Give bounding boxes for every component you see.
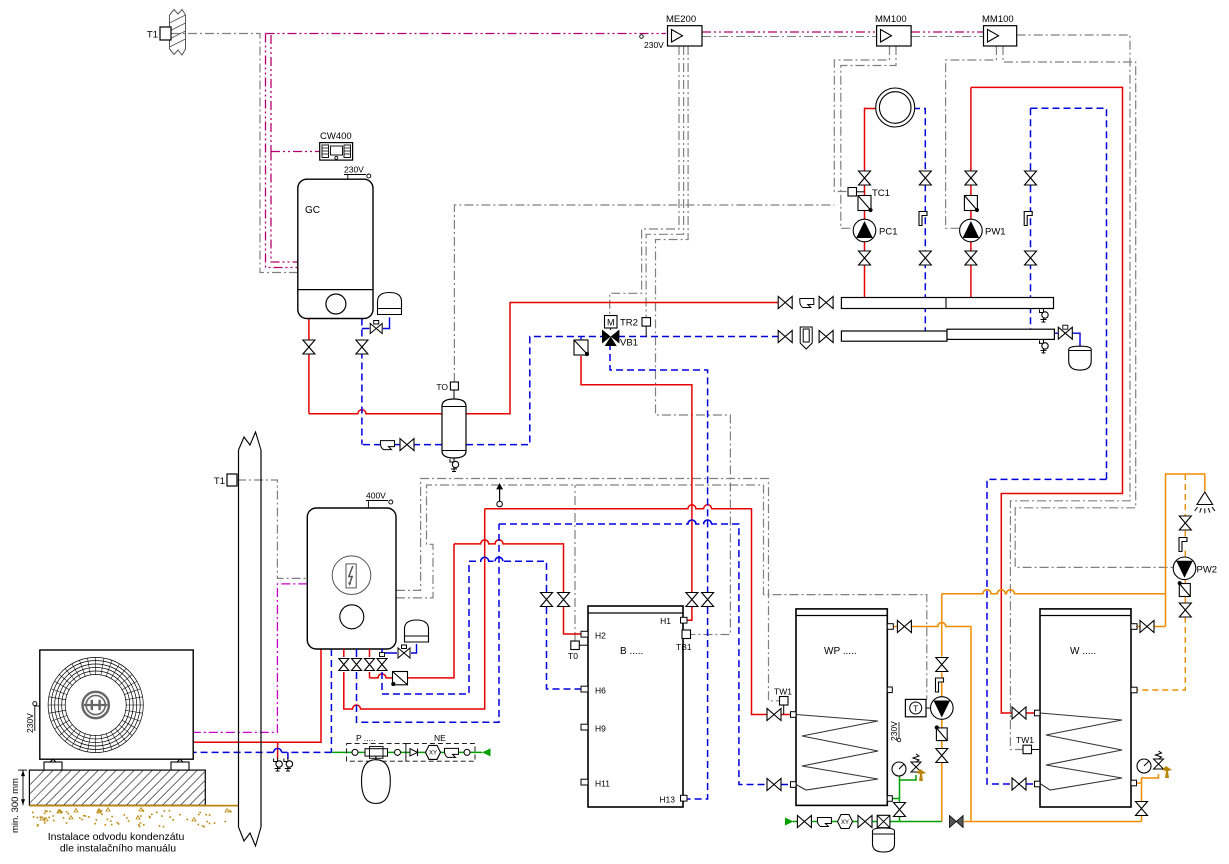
pipe fresh water line green <box>331 751 482 753</box>
valve circuit 1 return top <box>919 171 931 185</box>
svg-text:230V: 230V <box>344 165 364 175</box>
three-way valve VB1 <box>602 330 619 347</box>
shut-off valve dark <box>950 816 964 828</box>
bump blue over red H1 line <box>688 520 712 524</box>
pump DHW circulation WP <box>931 697 954 720</box>
wire MM100-2 to pump PW1 <box>946 46 997 228</box>
stub H11 <box>581 779 588 785</box>
stub WP hot out <box>887 624 893 630</box>
svg-text:M: M <box>607 317 615 327</box>
valve circulation riser top <box>936 658 948 672</box>
lockshield circuit 1 <box>919 212 927 226</box>
svg-text:min. 300 mm: min. 300 mm <box>10 778 21 833</box>
check valve PW2 <box>1179 538 1187 552</box>
buffer tank B <box>588 606 683 807</box>
pipe tank W coil return blue <box>987 108 1107 784</box>
valve separator return <box>400 439 414 451</box>
siphon NE <box>445 748 459 757</box>
svg-text:TW1: TW1 <box>774 687 792 697</box>
valve supply header right <box>819 297 833 309</box>
pipe indoor unit to tank WP flow red <box>344 505 790 715</box>
valve W coil in <box>1012 707 1026 719</box>
valve W hot out <box>1140 621 1154 633</box>
valve WP cold <box>894 803 906 817</box>
module ME200 <box>668 26 703 46</box>
valve PW2 top <box>1179 516 1191 530</box>
valve return header left <box>778 331 792 343</box>
bump blue over drain stem at heat pump <box>274 748 282 752</box>
pipe circulation line to PW2 orange dashed <box>1137 474 1185 690</box>
fill valve indoor unit 4 <box>377 649 387 671</box>
pipe cold water main green <box>793 821 942 823</box>
sensor TW1 tank WP <box>780 697 789 715</box>
sensor TB1 <box>682 630 691 639</box>
pipe cold water to tanks orange <box>964 774 1158 822</box>
check valve GC return <box>381 441 395 450</box>
pipe DHW circulation riser orange <box>942 590 1166 822</box>
stub W hot out <box>1131 624 1137 630</box>
stub W coil out <box>1035 781 1041 787</box>
svg-text:W .....: W ..... <box>1070 646 1096 657</box>
svg-text:VB1: VB1 <box>620 338 638 349</box>
valve circuit 1 return bottom <box>919 251 931 265</box>
svg-text:H13: H13 <box>659 795 675 805</box>
gauge tank WP <box>892 762 906 776</box>
check valve circulation <box>936 678 944 692</box>
wire bus segment MM100-MM100 <box>911 31 983 33</box>
svg-text:PW1: PW1 <box>985 227 1006 238</box>
stub W cold <box>1131 780 1137 786</box>
wire ME200 to TB1 sensor <box>656 46 731 635</box>
wire MM100-2 to pump PW2 <box>1003 46 1174 567</box>
svg-text:CW400: CW400 <box>320 131 352 142</box>
wire ME200 to M actuator VB1 <box>610 46 679 316</box>
pipe tank W loading flow red <box>971 87 1123 713</box>
valve buffer H6 <box>541 593 553 607</box>
tank W <box>1040 609 1131 807</box>
hydraulic separator TO <box>442 390 466 458</box>
wire indoor unit to thermostat box (inner loop) <box>396 485 927 699</box>
check valve below return line <box>574 337 589 357</box>
bump blue over unit risers <box>481 557 503 561</box>
discharge funnel W <box>1162 766 1172 778</box>
expansion vessel at GC <box>378 293 402 315</box>
stub WP coil in <box>791 712 797 718</box>
svg-text:TO: TO <box>436 382 448 392</box>
air vent on flow line <box>496 483 503 507</box>
safety valve tank W <box>1154 751 1164 769</box>
valve green main <box>797 816 811 828</box>
wire CW400 drop to GC (crimson) <box>271 35 320 262</box>
svg-text:TC1: TC1 <box>872 188 890 199</box>
label 230V at ME200 <box>640 35 664 50</box>
valve buffer H2 <box>558 593 570 607</box>
supply header bar <box>841 298 1053 309</box>
svg-text:MM100: MM100 <box>982 14 1014 25</box>
valve GC return <box>356 340 368 354</box>
pipe header expansion vessel blue <box>1054 333 1080 346</box>
wire T1 wall sensor to indoor unit <box>237 480 307 578</box>
drain return header <box>1040 339 1049 353</box>
label 230V at heat pump <box>25 702 40 733</box>
svg-text:PC1: PC1 <box>879 227 897 238</box>
svg-text:T0: T0 <box>568 651 578 661</box>
group NE dashed box <box>406 744 475 762</box>
dimension min 300 mm <box>10 770 27 833</box>
sensor TR2 <box>642 318 651 337</box>
meter XY NE <box>426 745 441 759</box>
valve indoor unit 3 <box>365 649 375 671</box>
safety valve tank WP <box>911 754 921 772</box>
pipe heating circuit 1 return blue <box>913 109 925 332</box>
cap valve indoor vessel <box>398 645 410 658</box>
valve WP hot out <box>897 621 911 633</box>
stub H9 <box>581 724 588 730</box>
stub H2 <box>581 631 588 637</box>
pipe tank WP cold connection green <box>892 775 916 822</box>
thermostat box 230V <box>905 699 930 716</box>
sample point 1 <box>352 749 358 755</box>
pipe heating circuit 2 return blue <box>1030 108 1032 329</box>
expansion vessel potable P <box>362 756 391 803</box>
heat pump outdoor unit <box>40 650 193 759</box>
label 230V at thermostat <box>889 721 901 742</box>
valve return header right <box>819 331 833 343</box>
stub WP coil out <box>791 782 797 788</box>
sensor TC1 <box>848 188 865 197</box>
expansion vessel at indoor unit <box>405 620 429 642</box>
valve circuit 2 flow bottom <box>965 251 977 265</box>
svg-text:T1: T1 <box>214 476 225 487</box>
pipe GC expansion vessel blue <box>362 317 390 328</box>
svg-text:TW1: TW1 <box>1016 735 1034 745</box>
svg-text:dle instalačního manuálu: dle instalačního manuálu <box>60 843 176 855</box>
pipe heating circuit 2 flow red <box>970 87 972 297</box>
cap valve GC vessel <box>370 321 382 334</box>
expansion vessel potable <box>873 828 895 852</box>
arrow fresh water green <box>482 748 491 756</box>
heat pump feet <box>44 759 189 770</box>
drain at heat pump line 2 <box>284 758 293 772</box>
strainer return header <box>800 327 812 349</box>
svg-text:H2: H2 <box>595 631 606 641</box>
valve WP coil out <box>767 779 781 791</box>
valve circulation riser bottom <box>936 749 948 763</box>
bump orange over circulation riser <box>938 623 946 627</box>
pipe heat pump flow red <box>193 649 321 759</box>
pipe indoor unit to buffer H6 blue <box>382 557 581 694</box>
gauge tank W <box>1137 759 1151 773</box>
sample point 3 <box>464 749 470 755</box>
filter PW2 <box>1178 581 1191 596</box>
wire bus segment ME200-MM100 <box>702 31 877 33</box>
svg-text:T: T <box>913 703 918 713</box>
wire MM100-1 to pump PC1 <box>841 46 896 228</box>
svg-text:H11: H11 <box>595 779 610 789</box>
pipe return header blue <box>618 336 778 338</box>
module MM100 second <box>984 26 1017 46</box>
drain separator <box>450 458 459 472</box>
wire gray bus parallel <box>702 36 984 38</box>
arrow cold water feed green <box>785 818 794 826</box>
svg-text:GC: GC <box>305 205 320 216</box>
svg-text:TB1: TB1 <box>676 642 692 652</box>
valve circuit 2 flow top <box>965 171 977 185</box>
pipe VB1 to buffer H13 blue <box>610 343 708 799</box>
svg-text:230V: 230V <box>25 713 35 733</box>
wall top with outdoor sensor T1 <box>160 10 186 56</box>
valve circuit 1 flow bottom <box>859 251 871 265</box>
wire MM100-1 to TC1 <box>834 46 889 192</box>
svg-text:Instalace odvodu kondenzátu: Instalace odvodu kondenzátu <box>48 831 185 843</box>
check valve green main <box>817 818 831 827</box>
lockshield circuit 2 <box>1024 212 1032 226</box>
sensor T1 on wall <box>227 474 237 486</box>
valve W coil out <box>1012 778 1026 790</box>
actuator M of VB1 <box>605 316 618 331</box>
wire MM100-2 to TW1 of tank W <box>1010 35 1130 750</box>
stub W circulation <box>1131 687 1137 693</box>
fill valve header end <box>1058 325 1072 339</box>
valve W cold <box>1136 802 1148 816</box>
pipe GC flow red <box>309 319 442 414</box>
magnetite filter indoor <box>391 672 407 687</box>
wire T1 outdoor sensor to bus corner <box>171 34 298 273</box>
wire TO sensor to MM100 area <box>454 205 834 382</box>
module MM100 first <box>877 26 912 46</box>
stub H1 <box>681 617 688 623</box>
heating circuit symbol circle <box>876 88 915 127</box>
wire T0 buffer sensor <box>574 485 576 641</box>
valve green small <box>858 816 872 828</box>
tank WP <box>796 609 887 806</box>
foundation block hatched <box>9 770 233 805</box>
svg-text:TR2: TR2 <box>620 318 638 329</box>
valve circuit 2 return bottom <box>1025 251 1037 265</box>
stub WP cold <box>887 796 892 802</box>
svg-text:NE: NE <box>434 733 446 743</box>
valve circuit 2 return top <box>1025 171 1037 185</box>
fill valve with vessel <box>877 815 890 827</box>
valve supply header left <box>778 297 792 309</box>
pipe tap water riser orange <box>1137 474 1205 627</box>
return header bar <box>841 329 1054 341</box>
coil tank W <box>1040 713 1122 790</box>
valve indoor unit 1 <box>339 649 349 671</box>
pipe heat pump return blue <box>193 649 331 759</box>
valve WP coil in <box>767 709 781 721</box>
pipe heating circuit 1 flow red <box>864 108 866 298</box>
boiler GC <box>298 179 373 318</box>
sample point 2 <box>395 749 401 755</box>
svg-text:230V: 230V <box>644 40 664 50</box>
svg-text:H6: H6 <box>595 686 606 696</box>
svg-text:MM100: MM100 <box>875 14 907 25</box>
ground line <box>29 805 238 807</box>
svg-text:230V: 230V <box>889 721 899 741</box>
wire ME200 to TR2 sensor <box>646 46 684 318</box>
discharge funnel WP <box>916 769 926 781</box>
valve circuit 1 flow top <box>859 171 871 185</box>
ground sand speckles <box>32 810 232 828</box>
valve PW2 bottom <box>1179 603 1191 617</box>
indoor unit (heat pump hydro tower) <box>307 508 396 649</box>
label 230V at GC <box>344 165 371 180</box>
drain supply header <box>1040 309 1049 323</box>
wire indoor unit to TW1 of tank WP (outer loop) <box>396 479 779 701</box>
pump PC1 <box>853 219 876 242</box>
water meter XY <box>838 815 853 829</box>
wall lower <box>239 432 262 846</box>
sensor TO <box>450 382 458 390</box>
valve GC flow <box>303 340 315 354</box>
svg-text:H9: H9 <box>595 724 606 734</box>
svg-text:WP .....: WP ..... <box>824 646 857 657</box>
wire 230V bus (crimson dash-dot) top <box>266 33 667 35</box>
svg-text:PW2: PW2 <box>1197 565 1218 576</box>
pump PW1 <box>960 219 983 242</box>
label 400V at indoor unit <box>366 491 393 509</box>
drain at heat pump line 1 <box>274 758 283 772</box>
bump orange over tank W connections <box>983 590 1014 594</box>
shower outlet symbol <box>1195 492 1215 513</box>
pipe tank WP hot water orange <box>893 623 971 822</box>
check valve NE <box>410 749 418 756</box>
pipe VB1 to buffer H1 red <box>581 356 692 620</box>
svg-text:H1: H1 <box>660 616 671 626</box>
pipe GC return blue <box>362 319 442 445</box>
pipe indoor expansion vessel blue <box>382 644 417 653</box>
stub W coil in <box>1035 710 1041 716</box>
controller CW400 <box>320 143 353 161</box>
svg-text:T1: T1 <box>147 30 158 41</box>
pipe separator to supply header red <box>466 303 778 414</box>
valve indoor unit 2 <box>352 649 362 671</box>
check valve circuit 1 <box>858 196 873 213</box>
pipe indoor unit to buffer H2 red <box>370 540 582 678</box>
group P dashed box <box>347 744 406 762</box>
stub H13 <box>681 795 688 801</box>
coil tank WP <box>796 715 878 791</box>
stub H6 <box>581 686 588 692</box>
stub WP mid <box>887 687 892 693</box>
wire bus drop to GC (crimson) <box>266 34 298 268</box>
pump PW2 <box>1173 557 1196 580</box>
expansion vessel manifold <box>1069 346 1092 370</box>
valve buffer H1 <box>686 593 698 607</box>
svg-text:P .....: P ..... <box>356 733 376 743</box>
svg-text:B .....: B ..... <box>620 646 643 657</box>
svg-text:ME200: ME200 <box>666 14 696 25</box>
pipe separator to return header blue <box>466 337 602 445</box>
wire 230V magenta indoor unit to heat pump <box>193 584 307 733</box>
sensor T0 buffer <box>571 641 588 650</box>
pressure reducer <box>365 747 388 759</box>
check valve supply header <box>800 299 814 308</box>
pipe indoor unit to tank WP return blue <box>357 520 791 785</box>
check valve circuit 2 <box>964 196 979 213</box>
valve buffer H13 line <box>702 593 714 607</box>
svg-text:400V: 400V <box>366 491 386 501</box>
filter circulation <box>935 725 948 740</box>
sensor TW1 tank W <box>1023 745 1040 754</box>
